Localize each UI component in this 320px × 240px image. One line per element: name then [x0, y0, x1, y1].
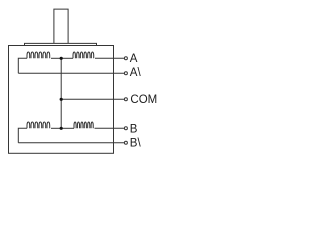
wire to terminal A	[95, 57, 124, 59]
wire to terminal COM	[61, 98, 124, 100]
winding A coil L2 (right half)	[73, 52, 94, 58]
wire to terminal B\	[18, 142, 124, 144]
wire to terminal B	[95, 127, 125, 129]
svg-text:A: A	[130, 53, 138, 65]
svg-text:COM: COM	[130, 94, 157, 106]
winding A left lead wire	[18, 58, 27, 73]
shaft	[54, 9, 68, 43]
wire center tap to coil L4	[61, 127, 74, 129]
winding B coil L3 (left half)	[27, 122, 50, 128]
wire center tap to coil L2	[61, 57, 73, 59]
junction dot winding B center tap	[60, 127, 63, 130]
svg-text:B: B	[130, 123, 138, 135]
wire to terminal A\	[18, 72, 124, 74]
junction dot winding A center tap	[60, 57, 63, 60]
wire coil L3 to center tap	[51, 127, 61, 129]
winding A coil L1 (left half)	[27, 52, 50, 58]
center tap vertical wire	[60, 58, 62, 128]
winding B left lead wire	[18, 128, 27, 143]
svg-text:A\: A\	[130, 67, 142, 79]
wire coil L1 to center tap	[51, 57, 61, 59]
terminal A\ circle	[124, 72, 127, 75]
winding B coil L4 (right half)	[74, 122, 93, 128]
terminal B\ circle	[124, 141, 127, 144]
svg-text:B\: B\	[130, 138, 142, 150]
mounting plate	[25, 43, 97, 45]
terminal B circle	[124, 127, 127, 130]
terminal COM circle	[124, 98, 127, 101]
terminal A circle	[124, 57, 127, 60]
motor body outline	[9, 46, 114, 154]
junction dot COM	[60, 98, 63, 101]
